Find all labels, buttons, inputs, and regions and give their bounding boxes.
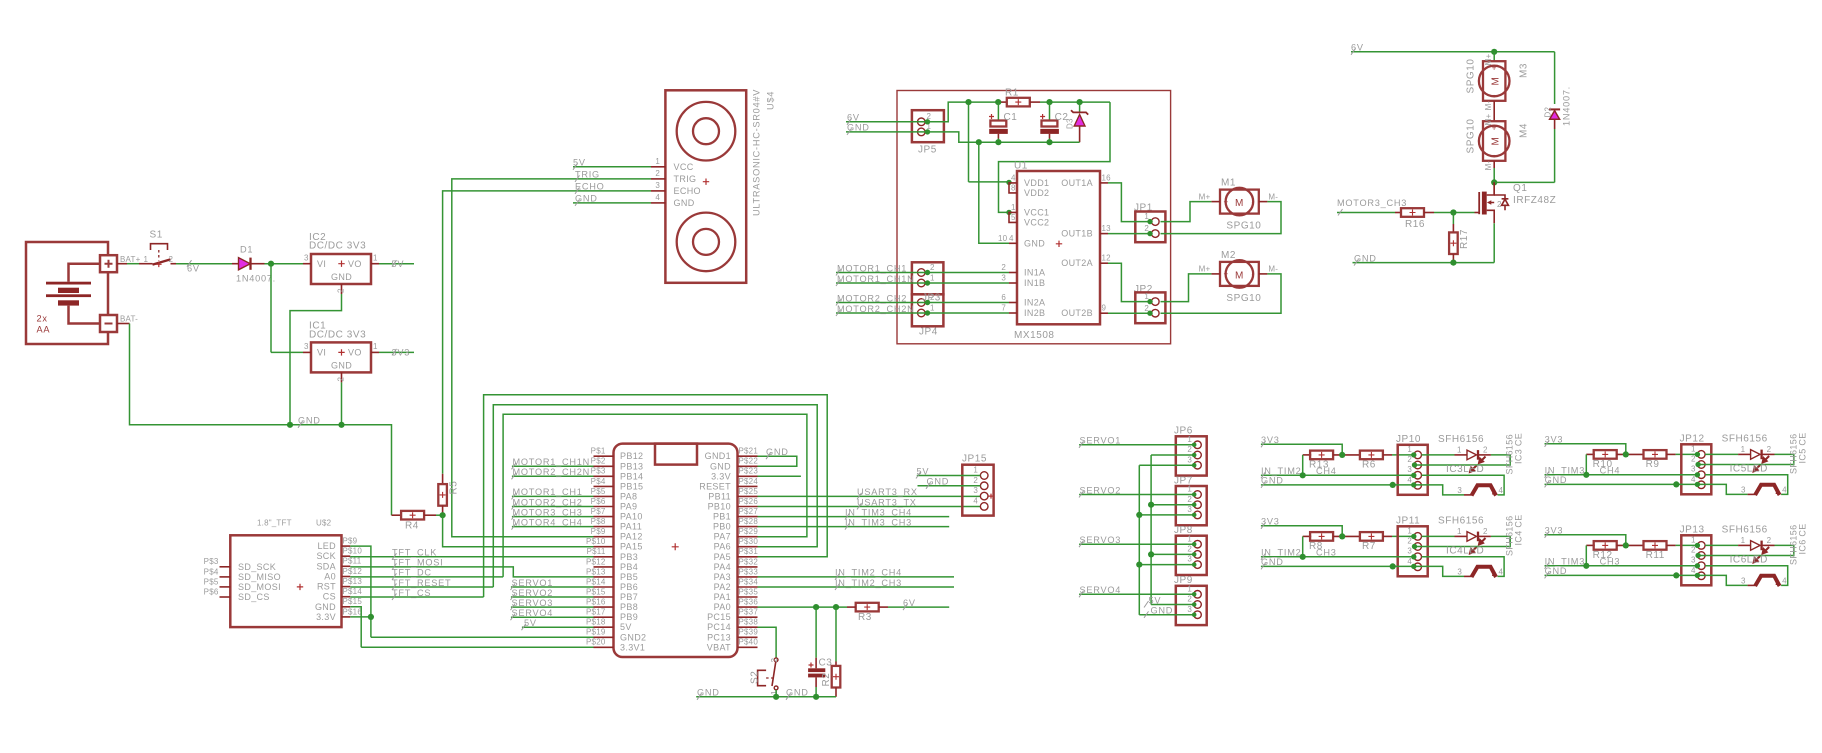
pin P$24 RESET of MCU (738, 485, 758, 487)
resistor R16 (1395, 212, 1401, 214)
wire net loop PA6 to TFT_RESET (493, 405, 817, 587)
svg-text:SFH6156: SFH6156 (1438, 434, 1484, 445)
svg-text:5V: 5V (917, 466, 930, 476)
regulator IC2 DC/DC 3V3 (303, 232, 379, 294)
svg-text:P$18: P$18 (586, 618, 606, 627)
battery B1 2x AA (26, 242, 108, 344)
wire net MOTOR1_CH1 (836, 272, 1009, 274)
junction JP11 pin1 (1411, 534, 1416, 539)
wire TFT LED to 3.3V (350, 546, 371, 637)
svg-text:P$32: P$32 (739, 557, 759, 566)
svg-text:SERVO4: SERVO4 (1080, 585, 1122, 595)
svg-text:U$2: U$2 (316, 519, 332, 528)
zener diode D3 (1066, 102, 1089, 142)
junction C1 top (995, 99, 1001, 105)
svg-text:R7: R7 (1362, 541, 1376, 552)
svg-text:3V3: 3V3 (1545, 435, 1564, 445)
svg-text:2: 2 (337, 288, 346, 293)
wire net 6V at PA0 (758, 606, 848, 608)
pin 2 IN1A of U1 (1009, 272, 1017, 274)
junction JP13 pin4 (1695, 573, 1700, 578)
svg-text:1: 1 (1741, 536, 1746, 545)
svg-text:GND: GND (298, 416, 321, 426)
svg-text:P$12: P$12 (343, 567, 363, 576)
svg-text:VBAT: VBAT (707, 642, 731, 652)
wire top rail right (1040, 101, 1110, 103)
svg-text:P$11: P$11 (343, 557, 362, 566)
wire VCC feed (999, 102, 1111, 212)
junction gate/R17 (1450, 209, 1456, 215)
svg-text:IN_TIM2_CH3: IN_TIM2_CH3 (835, 578, 902, 588)
svg-text:10: 10 (998, 234, 1008, 243)
svg-text:GND1: GND1 (705, 451, 731, 461)
headers JP3/JP4 (912, 262, 944, 337)
svg-text:RESET: RESET (699, 481, 731, 491)
svg-text:GND: GND (575, 194, 598, 204)
pin P$6 PA9 of MCU (594, 506, 614, 508)
svg-text:1: 1 (930, 274, 935, 283)
transistor Q1 IRFZ48Z (1479, 182, 1556, 223)
pin P$11 SDA of U$2 (342, 565, 351, 567)
pin P$13 PB5 of MCU (594, 576, 614, 578)
svg-text:IN_TIM2: IN_TIM2 (1261, 548, 1301, 558)
wire net SERVO3 (1079, 543, 1194, 545)
junction JP13 pin1 (1695, 543, 1700, 548)
resistor R12 (1586, 544, 1595, 546)
svg-text:1: 1 (1011, 203, 1016, 212)
svg-text:GND: GND (1545, 566, 1568, 576)
svg-text:3: 3 (1187, 605, 1192, 614)
pin P$9 LED of U$2 (342, 545, 351, 547)
svg-text:1: 1 (1407, 445, 1412, 454)
junction 5V bus (1148, 551, 1154, 557)
svg-text:M-: M- (1268, 265, 1278, 274)
svg-text:IC3LED: IC3LED (1446, 464, 1484, 475)
wire GND feed to U1 (979, 142, 1009, 243)
junction TFT 3.3V/LED (368, 614, 374, 620)
wire BAT- to GND rail (130, 324, 392, 516)
svg-text:USART3_TX: USART3_TX (857, 497, 917, 507)
svg-text:PA12: PA12 (620, 532, 643, 542)
svg-text:Q1: Q1 (1513, 183, 1527, 194)
svg-text:2: 2 (1497, 200, 1502, 209)
svg-text:1: 1 (973, 466, 978, 475)
svg-text:M+: M+ (1199, 192, 1211, 201)
svg-text:P$9: P$9 (343, 537, 358, 546)
pin 3 ECHO of U$4 (651, 190, 665, 192)
pin P$37 PC15 of MCU (738, 616, 758, 618)
svg-text:PB9: PB9 (620, 612, 638, 622)
svg-text:SFH6156: SFH6156 (1722, 525, 1768, 536)
svg-text:12: 12 (1102, 254, 1112, 263)
pin P$10 SCK of U$2 (342, 555, 351, 557)
svg-text:P$7: P$7 (591, 507, 606, 516)
junction JP5 pin1 (925, 129, 930, 134)
junction GND wire (1390, 482, 1396, 488)
svg-text:4: 4 (1499, 568, 1504, 577)
wire net MOTOR4_CH4 to MCU (512, 526, 594, 528)
svg-text:MOTOR2_CH2: MOTOR2_CH2 (837, 293, 907, 303)
svg-text:IN_TIM3: IN_TIM3 (1545, 557, 1585, 567)
svg-text:R17: R17 (1459, 229, 1470, 249)
svg-text:2: 2 (1767, 536, 1772, 545)
svg-text:PB4: PB4 (620, 562, 638, 572)
svg-text:5V: 5V (524, 618, 537, 628)
svg-text:SERVO4: SERVO4 (512, 608, 554, 618)
svg-text:2x: 2x (37, 314, 48, 324)
wire GND net (1545, 484, 1748, 494)
battery terminal BAT- (100, 315, 138, 333)
svg-text:PC14: PC14 (707, 622, 731, 632)
header JP11 (1396, 516, 1428, 577)
wire net IN_TIM2_CH4 (758, 576, 955, 578)
wire top rail to VDD feed (968, 102, 970, 182)
svg-text:MOTOR1_CH1: MOTOR1_CH1 (513, 487, 583, 497)
svg-text:P$4: P$4 (204, 567, 219, 576)
wire net TFT_DC (350, 576, 503, 578)
svg-text:4: 4 (655, 193, 660, 202)
junction JP2 pin2 (1147, 311, 1152, 316)
svg-text:GND: GND (786, 688, 809, 698)
svg-text:3: 3 (1691, 556, 1696, 565)
svg-text:SPG10: SPG10 (1226, 221, 1261, 232)
svg-text:1: 1 (930, 304, 935, 313)
wire net GND top right (1353, 262, 1495, 264)
svg-text:CH4: CH4 (1316, 466, 1337, 476)
junction C1 bottom (995, 139, 1001, 145)
svg-text:R9: R9 (1646, 459, 1660, 470)
junction input/R13 (1300, 472, 1306, 478)
wire net 5V to VCC (573, 166, 651, 168)
pin P$40 VBAT of MCU (738, 646, 758, 648)
svg-text:P$14: P$14 (343, 587, 363, 596)
svg-text:4: 4 (1782, 486, 1787, 495)
wire 6V to M3 (1493, 52, 1495, 61)
wire LED cathode to JP12 pin2 (1698, 454, 1794, 464)
svg-text:TFT_RESET: TFT_RESET (392, 578, 451, 588)
pin GND of U1 (1009, 242, 1017, 244)
pins VDD1/VDD2 of U1 (1009, 183, 1017, 193)
svg-text:3.3V: 3.3V (711, 471, 731, 481)
svg-text:6V: 6V (903, 598, 916, 608)
svg-text:P$23: P$23 (739, 467, 759, 476)
wire input net to JP12 pin3 (1545, 474, 1698, 476)
svg-text:GND: GND (331, 272, 352, 282)
svg-text:MOTOR2_CH2N: MOTOR2_CH2N (513, 467, 591, 477)
junction top rail VDD feed (965, 99, 971, 105)
label GND (847, 128, 852, 135)
wire net 6V (battery to D1) (176, 263, 232, 265)
svg-text:SD_CS: SD_CS (238, 592, 270, 602)
wire 5V to JP15 pin1 (917, 475, 981, 477)
svg-text:MOTOR1_CH1N: MOTOR1_CH1N (513, 457, 591, 467)
pin P$5 SD_MOSI of U$2 (220, 586, 231, 588)
pin P$20 3.3V1 of MCU (594, 646, 614, 648)
svg-text:IC6 CE: IC6 CE (1797, 523, 1807, 554)
wire OUT1B to JP1 pin2 (1108, 233, 1150, 235)
wire input net to JP11 pin3 (1261, 556, 1414, 558)
svg-text:OUT1B: OUT1B (1061, 229, 1093, 239)
svg-text:SERVO2: SERVO2 (1080, 485, 1122, 495)
wire JP8 pin2 to 5V bus (1151, 553, 1194, 555)
pin P$27 PB1 of MCU (738, 516, 758, 518)
pin P$26 PB10 of MCU (738, 506, 758, 508)
svg-text:P$33: P$33 (739, 567, 759, 576)
svg-text:1: 1 (373, 342, 378, 351)
wire net SERVO2 to MCU (511, 596, 594, 598)
junction 3V3/R12/R11 (1623, 542, 1629, 548)
svg-text:PA0: PA0 (714, 602, 731, 612)
wire M4 M- down (1493, 161, 1495, 168)
svg-text:1: 1 (655, 157, 660, 166)
svg-text:P$24: P$24 (739, 477, 759, 486)
wire net GND to JP5 (846, 131, 925, 133)
svg-text:6: 6 (1001, 293, 1006, 302)
svg-text:D3: D3 (1066, 118, 1075, 129)
svg-text:GND: GND (710, 461, 731, 471)
junction GND wire (1673, 481, 1679, 487)
pin P$36 PA0 of MCU (738, 606, 758, 608)
svg-text:MOTOR1_CH1: MOTOR1_CH1 (837, 263, 907, 273)
svg-text:2: 2 (655, 169, 660, 178)
svg-text:PB6: PB6 (620, 582, 638, 592)
svg-text:3: 3 (1741, 577, 1746, 586)
MCU module (blue pill) (614, 444, 738, 657)
svg-text:IC6LED: IC6LED (1730, 554, 1768, 565)
svg-text:R5: R5 (449, 481, 460, 495)
label GND (575, 199, 580, 206)
svg-text:GND: GND (766, 447, 789, 457)
svg-text:5V: 5V (392, 259, 405, 269)
svg-text:SERVO1: SERVO1 (512, 578, 554, 588)
pin P$39 PC13 of MCU (738, 636, 758, 638)
pin P$31 PA5 of MCU (738, 556, 758, 558)
junction JP11 pin2 (1412, 544, 1417, 549)
svg-text:2: 2 (169, 255, 174, 264)
svg-text:3V3: 3V3 (1261, 435, 1280, 445)
svg-text:P$38: P$38 (739, 618, 759, 627)
svg-text:MOTOR3_CH3: MOTOR3_CH3 (1337, 198, 1407, 208)
svg-text:SCK: SCK (316, 551, 336, 561)
wire net 3V3 (JP13 block) (1545, 535, 1626, 546)
wire JP7 pin2 to 5V bus (1151, 504, 1194, 506)
wire R12 to input (1585, 545, 1587, 565)
svg-text:P$17: P$17 (586, 608, 606, 617)
svg-text:GND: GND (697, 688, 720, 698)
svg-text:1: 1 (1187, 485, 1192, 494)
battery terminal BAT+ (100, 255, 141, 272)
svg-text:PB1: PB1 (713, 512, 731, 522)
switch S2 (750, 658, 780, 697)
pin 4 GND of U$4 (651, 202, 665, 204)
wire net TFT_CS (350, 596, 483, 598)
header JP2 (1134, 284, 1165, 323)
svg-text:P$26: P$26 (739, 497, 759, 506)
wire IC1 GND to rail (341, 382, 343, 424)
svg-text:PA5: PA5 (714, 552, 731, 562)
svg-text:PA9: PA9 (620, 502, 637, 512)
pin P$3 SD_SCK of U$2 (220, 566, 231, 568)
junction JP10 pin1 (1411, 452, 1416, 457)
svg-text:OUT2B: OUT2B (1061, 308, 1093, 318)
svg-text:P$34: P$34 (739, 577, 759, 586)
resistor R3 (856, 603, 879, 612)
svg-text:P$22: P$22 (739, 457, 759, 466)
svg-text:R16: R16 (1405, 219, 1425, 230)
junction ECHO/R4/R5 (440, 512, 446, 518)
diode D2 1N4007 (1494, 52, 1571, 183)
svg-text:MOTOR1_CH1N: MOTOR1_CH1N (837, 274, 915, 284)
resistor R8 (1303, 535, 1312, 537)
pin P$10 PA15 of MCU (594, 546, 614, 548)
header JP13 (1680, 525, 1712, 586)
wire M3 to M4 (1493, 101, 1495, 121)
svg-text:P$11: P$11 (587, 547, 606, 556)
pin P$28 PB0 of MCU (738, 526, 758, 528)
pin P$21 GND1 of MCU (738, 455, 758, 457)
svg-text:3: 3 (1187, 455, 1192, 464)
wire net SERVO1 (1079, 444, 1194, 446)
junction node 6V (268, 261, 274, 267)
wire ECHO junction to MCU PA15 (443, 515, 594, 547)
wire net 5V from IC2 (379, 263, 414, 265)
wire GND net (1261, 566, 1464, 576)
svg-text:P$4: P$4 (591, 477, 606, 486)
origin cross U$4 (703, 179, 709, 185)
svg-text:IN1A: IN1A (1024, 268, 1045, 278)
svg-text:3.3V1: 3.3V1 (620, 642, 645, 652)
svg-text:1: 1 (1407, 526, 1412, 535)
pin 12 OUT2A of U1 (1100, 262, 1108, 264)
wire net loop PA5 to TFT_CS (484, 395, 828, 597)
pin 13 OUT1B of U1 (1100, 233, 1108, 235)
svg-text:P$10: P$10 (343, 547, 363, 556)
wire JP13 pin3 to transistor collector (1705, 566, 1788, 586)
svg-text:M1: M1 (1221, 178, 1236, 189)
svg-text:2: 2 (930, 263, 935, 272)
svg-text:P$29: P$29 (739, 527, 759, 536)
svg-text:BAT+: BAT+ (120, 255, 141, 264)
wire net 3V3 from IC1 (379, 351, 414, 353)
header JP12 (1680, 434, 1712, 495)
wire net IN_TIM3_CH3 (758, 526, 950, 528)
svg-text:LED: LED (317, 541, 336, 551)
wire IC2 GND to rail (290, 294, 342, 425)
svg-text:PA3: PA3 (714, 572, 731, 582)
label IN_TIM3_CH4 (1545, 471, 1550, 478)
wire LED cathode to JP13 pin2 (1698, 545, 1794, 555)
resistor R6 (1333, 454, 1360, 456)
motor M3 SPG10 (1465, 54, 1529, 111)
label IN_TIM3_CH3 (1545, 562, 1550, 569)
svg-text:IN1B: IN1B (1024, 278, 1045, 288)
svg-text:M-: M- (1484, 161, 1493, 171)
svg-text:-: - (1251, 270, 1254, 279)
wire net USART3_RX (758, 495, 981, 497)
svg-text:GND: GND (674, 198, 695, 208)
wire net 3V3 (JP12 block) (1545, 444, 1626, 455)
svg-text:IN2B: IN2B (1024, 308, 1045, 318)
svg-text:P$16: P$16 (343, 607, 363, 616)
svg-text:1N4007.: 1N4007. (236, 274, 276, 284)
svg-text:2: 2 (337, 377, 346, 382)
svg-text:TRIG: TRIG (575, 170, 600, 180)
wire net 3V3 (JP11 block) (1261, 526, 1342, 537)
optocoupler IC6 phototransistor (1741, 576, 1787, 586)
svg-text:3: 3 (304, 342, 309, 351)
svg-text:5V: 5V (1149, 595, 1162, 605)
label 6V (847, 118, 852, 125)
junction GND rail at IC1 (338, 422, 344, 428)
pin P$25 PB11 of MCU (738, 495, 758, 497)
pin P$35 PA1 of MCU (738, 596, 758, 598)
svg-text:6V: 6V (187, 264, 200, 274)
svg-text:TFT_CS: TFT_CS (392, 588, 431, 598)
svg-text:MOTOR3_CH3: MOTOR3_CH3 (513, 507, 583, 517)
junction JP2 pin1 (1147, 299, 1152, 304)
pin 2 TRIG of U$4 (651, 178, 665, 180)
svg-text:6V: 6V (1351, 43, 1364, 53)
pin P$16 PB8 of MCU (594, 606, 614, 608)
svg-text:2: 2 (1767, 445, 1772, 454)
svg-text:P$5: P$5 (591, 487, 606, 496)
pin P$3 PB14 of MCU (594, 475, 614, 477)
svg-text:P$15: P$15 (586, 587, 606, 596)
pin 3 IN1B of U1 (1009, 282, 1017, 284)
junction M4/D2/Q1 (1491, 179, 1497, 185)
wire net MOTOR2_CH2N (836, 312, 1009, 314)
svg-text:BAT-: BAT- (120, 315, 138, 324)
wire JP7 pin3 to GND bus (1139, 514, 1193, 516)
svg-text:-: - (1493, 151, 1496, 160)
frame around motor driver (897, 91, 1171, 344)
svg-text:P$20: P$20 (586, 638, 606, 647)
wire M1 M- to JP1 pin2 (1161, 202, 1282, 234)
switch S1 (127, 230, 176, 268)
pin P$32 PA4 of MCU (738, 566, 758, 568)
wire net USART3_TX (758, 506, 981, 508)
svg-text:P$21: P$21 (739, 447, 759, 456)
pin P$12 A0 of U$2 (342, 576, 351, 578)
pin 9 OUT2B of U1 (1100, 312, 1108, 314)
svg-text:TFT_DC: TFT_DC (392, 568, 432, 578)
svg-text:5V: 5V (573, 158, 586, 168)
svg-text:PB14: PB14 (620, 471, 643, 481)
svg-text:PA11: PA11 (620, 522, 642, 532)
svg-text:SFH6156: SFH6156 (1722, 434, 1768, 445)
svg-text:SD_SCK: SD_SCK (238, 562, 276, 572)
svg-text:3V3: 3V3 (1261, 517, 1280, 527)
junction JP5 pin2 (925, 119, 930, 124)
wire R7 to JP11 pin1 (1392, 535, 1414, 537)
svg-text:PB11: PB11 (708, 491, 731, 501)
wire net SERVO4 (1079, 593, 1194, 595)
wire Q1 source to GND (1493, 223, 1495, 262)
wire servo 5V bus (1150, 455, 1152, 605)
svg-text:1.8"_TFT: 1.8"_TFT (257, 519, 292, 528)
svg-text:ECHO: ECHO (674, 186, 701, 196)
svg-text:P$13: P$13 (343, 577, 363, 586)
header JP5 (912, 110, 944, 155)
junction input/R8 (1300, 554, 1306, 560)
label ECHO (575, 187, 580, 194)
svg-text:PB12: PB12 (620, 451, 643, 461)
svg-text:VI: VI (317, 259, 326, 269)
svg-text:IN2A: IN2A (1024, 298, 1045, 308)
svg-text:SPG10: SPG10 (1465, 119, 1476, 154)
svg-text:5: 5 (1011, 213, 1016, 222)
svg-text:2: 2 (973, 476, 978, 485)
